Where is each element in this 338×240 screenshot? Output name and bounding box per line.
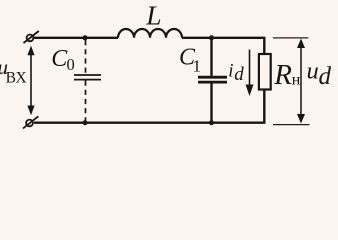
svg-text:R: R [273,59,292,91]
svg-text:0: 0 [67,55,75,74]
svg-text:ВХ: ВХ [6,70,27,87]
svg-text:L: L [145,0,161,30]
svg-text:н: н [292,71,301,88]
svg-text:u: u [307,58,319,85]
svg-text:i: i [228,61,233,82]
svg-text:d: d [234,64,244,85]
svg-text:d: d [319,63,332,90]
svg-text:1: 1 [193,56,202,75]
